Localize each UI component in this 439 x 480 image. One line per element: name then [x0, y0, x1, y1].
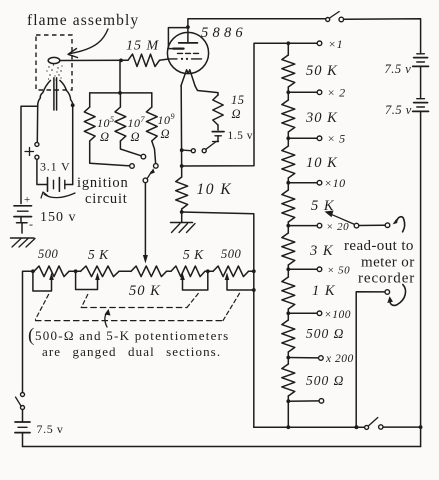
svg-text:are ganged dual sections.: are ganged dual sections. — [42, 344, 221, 359]
resistor 3K (divider) — [282, 226, 295, 265]
svg-text:7.5 v: 7.5 v — [37, 422, 64, 436]
svg-text:5 K: 5 K — [88, 247, 109, 262]
wire: resistor bank top rail — [90, 92, 152, 94]
resistor 10^9 input — [146, 93, 157, 163]
gang link 5K pots (dashed) — [81, 293, 199, 308]
read-out terminal upper — [385, 217, 404, 232]
svg-text:recorder: recorder — [358, 271, 415, 287]
wire: bottom rail — [23, 446, 421, 448]
wire: pot chain left end — [23, 271, 35, 392]
read-out terminal lower — [356, 285, 405, 428]
svg-text:500-Ω and 5-K potentiometers: 500-Ω and 5-K potentiometers — [35, 328, 230, 343]
resistor 15 ohm (filament) — [213, 95, 223, 125]
svg-text:15 M: 15 M — [126, 39, 160, 54]
tap x200 — [286, 352, 353, 365]
label: 500 (left) — [38, 247, 59, 261]
wire: ignition switch to battery — [37, 160, 47, 185]
tube screen grid (dashed) — [178, 52, 200, 54]
resistor 500 ohm upper (divider) — [282, 313, 295, 352]
junction (burner right) — [71, 103, 75, 107]
note: ganged potentiometers — [28, 325, 230, 359]
junction (right 5K tap) — [206, 269, 210, 273]
label: 150 v — [40, 210, 77, 225]
wire: switch to 7.5V battery — [22, 410, 24, 422]
label: 1 K (divider) — [312, 283, 336, 299]
svg-text:× 20: × 20 — [326, 221, 349, 233]
resistor 10^7 input — [115, 93, 141, 156]
potentiometer 5K (left) — [81, 266, 132, 277]
wire: filament right leg to 15 ohm — [195, 86, 218, 95]
svg-text:+: + — [24, 194, 31, 206]
tap x20 — [286, 221, 349, 233]
wire: right rail — [420, 111, 422, 446]
resistor 50K (divider) — [282, 43, 295, 87]
svg-text:150 v: 150 v — [40, 210, 77, 225]
resistor 1K (divider) — [282, 269, 295, 309]
label: 50 K (center pot) — [129, 283, 161, 299]
label: read-out to meter or recorder — [344, 238, 415, 287]
wire: range wiper to 50K pot wiper — [143, 183, 148, 264]
svg-text:50 K: 50 K — [129, 283, 161, 299]
contact: 10^7 — [141, 154, 146, 159]
svg-text:read-out to: read-out to — [344, 238, 414, 254]
wire: top rail to right rail — [344, 19, 421, 54]
svg-text:5 K: 5 K — [183, 247, 204, 262]
svg-text:circuit: circuit — [85, 191, 128, 207]
label: 7.5 v (upper) — [385, 62, 412, 76]
wiper 500 left — [33, 271, 54, 291]
switch (ignition) — [25, 142, 39, 159]
battery 7.5V lower (plate supply) — [413, 99, 429, 112]
svg-text:3 K: 3 K — [309, 243, 334, 259]
tap x1 — [286, 37, 343, 51]
tap x100 — [286, 309, 351, 321]
label: 15 M — [126, 39, 160, 54]
svg-text:× 2: × 2 — [327, 86, 346, 100]
label: flame assembly — [27, 12, 139, 29]
wire: burner left wall down to ignition switch — [36, 106, 38, 142]
tube plate — [179, 27, 198, 43]
label: 3 K (divider) — [309, 243, 334, 259]
label: 10^7 ohms — [128, 115, 146, 144]
switch (bias supply) — [16, 393, 25, 410]
label: 15 ohm — [231, 93, 245, 121]
wire: cathode bottom node — [181, 209, 183, 212]
battery 150V — [14, 206, 32, 217]
junction (left 5K tap) — [74, 269, 78, 273]
svg-text:50 K: 50 K — [306, 63, 338, 79]
tap x2 — [286, 86, 345, 100]
wire: selector to read-out terminal — [359, 224, 385, 226]
svg-text:-: - — [29, 217, 34, 231]
wiper 5K right — [180, 271, 208, 290]
label: 10 K (divider) — [306, 155, 338, 171]
svg-text:meter or: meter or — [361, 255, 415, 271]
arrow (to flame assembly) — [68, 29, 108, 58]
resistor 10K (divider) — [282, 138, 295, 178]
potentiometer 5K (right) — [171, 266, 213, 277]
burner body left wall — [38, 80, 51, 105]
svg-text:×1: ×1 — [328, 37, 343, 51]
svg-text:15: 15 — [231, 93, 245, 107]
arrow (to ignition battery) — [41, 192, 75, 198]
wire: chain bottom to return rail — [286, 401, 290, 429]
svg-text:x 200: x 200 — [325, 353, 354, 365]
label: 50 K (divider) — [306, 63, 338, 79]
battery 3.1V (ignition) — [48, 178, 73, 192]
svg-text:5 8 8 6: 5 8 8 6 — [201, 25, 243, 41]
wire: burner to 150V battery — [21, 106, 38, 203]
battery 7.5V upper (plate supply) — [413, 54, 429, 67]
svg-text:500: 500 — [38, 247, 59, 261]
junction (filament return) — [180, 148, 184, 152]
label: 1.5 V — [228, 130, 254, 142]
label: 10^9 ohms — [158, 112, 176, 141]
junction (cathode bottom) — [180, 210, 184, 214]
label: 7.5 V (lower) — [385, 103, 412, 117]
range selector wiper — [143, 168, 155, 183]
junction (grid node) — [119, 59, 123, 63]
flame chamber (dashed enclosure) — [36, 35, 72, 90]
wiper 5K left — [76, 271, 100, 289]
wire: between right batteries — [420, 66, 422, 98]
junction (return rail / lower terminal) — [355, 425, 359, 429]
tube control grid (dashed) — [169, 58, 202, 60]
junction (chain right end) — [252, 269, 256, 273]
resistor 5K (divider) — [282, 183, 295, 222]
label: 500 ohm lower — [306, 373, 344, 388]
wire: battery to bottom rail — [22, 433, 24, 447]
svg-text:10 K: 10 K — [197, 181, 233, 198]
wire: plate to top rail — [188, 19, 327, 27]
contact: 10^5 — [130, 164, 135, 169]
switch (plate supply, top) — [326, 12, 344, 22]
gang link 500 pots (dashed) — [36, 293, 241, 321]
label: 7.5 V (bias) — [37, 422, 64, 436]
electrometer tube 5886 envelope — [167, 32, 208, 73]
label: 10 K (cathode) — [197, 181, 233, 198]
svg-text:7.5 v: 7.5 v — [385, 62, 412, 76]
svg-text:500: 500 — [221, 247, 242, 261]
tap x10 — [286, 176, 345, 190]
resistor 30K (divider) — [282, 92, 295, 132]
tap x50 — [286, 265, 350, 277]
label: 10^5 ohms — [97, 115, 115, 144]
wire: screen tied to plate — [168, 28, 188, 49]
svg-text:× 50: × 50 — [327, 265, 350, 277]
arrow (note to gang links) — [105, 309, 111, 327]
flame sparks — [46, 64, 62, 80]
svg-text:Ω: Ω — [100, 130, 110, 144]
wire: 15 ohm to 1.5V cell — [217, 125, 219, 130]
switch (filament) — [184, 142, 219, 153]
svg-text:Ω: Ω — [131, 130, 141, 144]
battery 1.5V (filament cell) — [212, 132, 224, 136]
wire: grid node to input resistor bank — [119, 60, 121, 93]
resistor 500 ohm lower (divider) — [282, 358, 295, 397]
svg-text:×100: ×100 — [324, 309, 351, 321]
svg-text:Ω: Ω — [161, 127, 171, 141]
switch (output, bottom) — [365, 418, 383, 430]
label: 5886 — [201, 25, 243, 41]
label: 500 (right) — [221, 247, 242, 261]
svg-text:3.1 V: 3.1 V — [40, 160, 70, 174]
wire: divider return rail — [254, 426, 364, 428]
junction (cathode / feedback node) — [180, 164, 184, 168]
collector electrode loop — [48, 57, 60, 63]
svg-text:1.5 v: 1.5 v — [228, 130, 254, 142]
label: 5 K (right pot) — [183, 247, 204, 262]
label: 5 K (divider) — [311, 198, 335, 214]
svg-text:flame assembly: flame assembly — [27, 12, 139, 29]
ground (cathode) — [171, 212, 196, 233]
label: - (150V negative) — [29, 217, 34, 231]
tap x5 — [286, 132, 345, 146]
battery 7.5V (bias) — [15, 422, 30, 433]
potentiometer 500 (left) — [34, 266, 81, 277]
burner jet — [54, 78, 57, 110]
wire: feedback node to x1 tap — [182, 43, 286, 166]
svg-text:×10: ×10 — [324, 176, 346, 190]
tube filament — [181, 70, 195, 86]
burner body right wall — [60, 80, 73, 184]
svg-text:7.5 v: 7.5 v — [385, 103, 412, 117]
resistor 10^5 input — [84, 93, 129, 166]
wiper 500 right — [225, 273, 256, 292]
potentiometer 50K (center) — [131, 266, 171, 277]
svg-text:Ω: Ω — [232, 107, 242, 121]
wire: collector to grid resistor — [60, 59, 128, 61]
svg-text:500 Ω: 500 Ω — [306, 326, 344, 341]
wire: output switch to right rail — [383, 425, 423, 429]
wire: 150V battery negative stub — [17, 217, 28, 233]
svg-text:10 K: 10 K — [306, 155, 338, 171]
junction (plate node) — [186, 25, 190, 29]
label: 30 K (divider) — [305, 110, 338, 126]
wire: 1.5V cell to filament switch — [216, 136, 218, 142]
wire: cathode node to divider return rail — [182, 212, 254, 427]
resistor 15M (grid) — [128, 54, 169, 66]
svg-text:(: ( — [28, 325, 35, 346]
potentiometer 500 (right) — [213, 266, 254, 277]
label: + (150V positive) — [24, 194, 31, 206]
svg-text:500 Ω: 500 Ω — [306, 373, 344, 388]
label: ignition circuit — [77, 175, 129, 207]
svg-text:1 K: 1 K — [312, 283, 336, 299]
label: 500 ohm upper — [306, 326, 344, 341]
svg-text:ignition: ignition — [77, 175, 129, 191]
wire: filament left leg down — [180, 86, 183, 177]
tap bottom — [286, 396, 323, 403]
junction (lower terminal to rail) — [355, 425, 359, 429]
svg-text:30 K: 30 K — [305, 110, 338, 126]
contact: 10^9 — [154, 164, 159, 169]
multiplier selector lever — [325, 211, 359, 228]
svg-text:× 5: × 5 — [327, 132, 346, 146]
ground (150V return) — [11, 238, 36, 247]
label: 5 K (left pot) — [88, 247, 109, 262]
resistor 10K (cathode) — [176, 177, 188, 209]
junction (bank rail) — [118, 91, 122, 95]
label: 3.1 V — [40, 160, 70, 174]
junction (left 500 tap) — [31, 269, 35, 273]
